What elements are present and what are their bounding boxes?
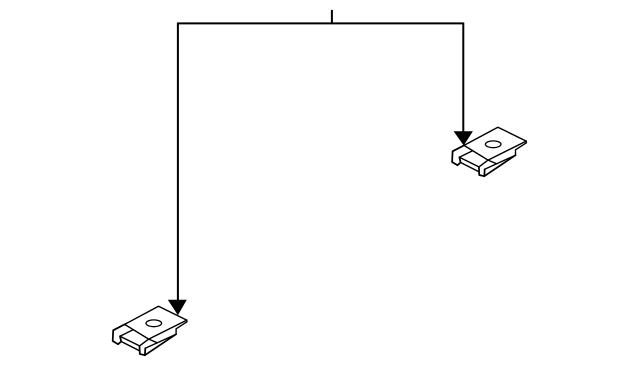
wire: right vertical leader xyxy=(462,23,464,134)
wire: left vertical leader xyxy=(177,23,179,302)
wire: horizontal leader line xyxy=(178,22,463,24)
arrowhead (right leader) xyxy=(454,131,473,145)
clip/retainer U-nut (upper right) xyxy=(452,127,526,176)
clip/retainer U-nut (lower left) xyxy=(113,306,187,355)
arrowhead (left leader) xyxy=(168,300,187,315)
callout label 1 (vertical bar) xyxy=(331,10,333,24)
